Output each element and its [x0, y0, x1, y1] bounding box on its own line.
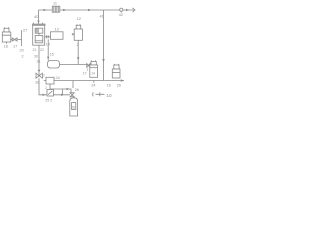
arrow down canister C branch	[77, 57, 80, 60]
pump P14	[48, 61, 60, 69]
vessel inner box upper	[35, 28, 43, 33]
canister B	[112, 64, 120, 78]
regulator R24	[46, 77, 54, 84]
arrow on top pipe 2	[63, 9, 66, 11]
canister A	[90, 60, 98, 77]
svg-text:2: 2	[22, 55, 24, 59]
svg-text:24: 24	[56, 76, 60, 80]
wire riser from vessel top	[38, 10, 40, 24]
valve V17	[12, 38, 17, 41]
svg-text:16: 16	[4, 45, 8, 49]
svg-text:20: 20	[20, 49, 24, 53]
svg-text:26: 26	[71, 106, 75, 110]
arrow on bottom line after corner	[43, 94, 46, 96]
arrow end right bottom	[121, 79, 124, 81]
valve V32	[36, 73, 42, 78]
arrow on mid line	[67, 88, 70, 90]
svg-text:42: 42	[119, 13, 123, 17]
svg-text:40: 40	[34, 14, 39, 19]
valve V42 circle	[120, 8, 123, 11]
wire left riser	[21, 30, 23, 46]
svg-text:22: 22	[40, 48, 44, 52]
figure pointer 10	[93, 92, 112, 98]
svg-text:11: 11	[53, 2, 57, 6]
svg-text:14: 14	[91, 72, 95, 76]
canister 16	[2, 27, 11, 44]
vessel inner connector	[38, 33, 40, 35]
wire mid line to cylinder valve	[50, 89, 71, 93]
svg-text:21: 21	[33, 48, 37, 52]
arrow down to pump	[47, 57, 49, 60]
heater H13	[51, 32, 64, 40]
svg-text:26: 26	[117, 83, 121, 87]
filter F11	[52, 6, 60, 12]
box 25 on bottom line	[47, 90, 54, 97]
wire right riser	[103, 13, 105, 81]
svg-text:13: 13	[55, 28, 59, 32]
valve at canister A inlet	[87, 64, 90, 68]
wire valve to riser	[11, 39, 22, 41]
arrow on top pipe 4	[126, 9, 129, 11]
vessel inner box lower	[35, 35, 43, 42]
svg-text:2: 2	[43, 74, 45, 78]
svg-text:31: 31	[37, 60, 41, 64]
svg-text:17: 17	[83, 72, 87, 76]
flange link to heater	[45, 35, 51, 38]
arrow on bottom line	[61, 94, 64, 96]
svg-text:15: 15	[50, 53, 54, 57]
svg-text:12: 12	[77, 17, 81, 21]
valve at cylinder top	[70, 93, 74, 97]
node tick below canister A	[93, 81, 95, 83]
node tick between lines	[62, 89, 64, 95]
svg-text:2: 2	[77, 43, 79, 47]
svg-text:41: 41	[100, 15, 104, 19]
wire right bottom line	[54, 80, 124, 82]
svg-text:27: 27	[23, 29, 27, 33]
arrow down right riser	[102, 59, 105, 62]
svg-text:24: 24	[91, 83, 95, 87]
arrow on top pipe 3	[88, 9, 91, 11]
arrow down riser to vessel	[37, 21, 39, 24]
wire regulator down	[49, 84, 51, 89]
svg-text:2b: 2b	[75, 88, 79, 92]
wire stub below line start	[72, 81, 74, 89]
svg-text:10: 10	[107, 93, 113, 98]
wire heater down to pump	[47, 39, 49, 60]
outlet chevron	[133, 8, 136, 12]
cylinder 26	[70, 98, 78, 116]
wire vessel down pipe	[38, 45, 40, 76]
arrow down on vessel pipe	[38, 70, 41, 73]
svg-text:2: 2	[45, 86, 47, 90]
vessel V12 flange	[32, 24, 46, 26]
wire valve down and corner	[39, 78, 70, 95]
svg-text:30: 30	[34, 55, 38, 59]
node junction 41	[103, 10, 105, 13]
arrow on top pipe 1	[44, 9, 47, 11]
canister C12	[72, 24, 83, 64]
wire top main pipe	[39, 9, 135, 11]
wire pump outlet	[60, 64, 88, 66]
vessel inner line	[35, 40, 43, 42]
vessel V12 outer	[33, 25, 45, 45]
svg-text:2: 2	[50, 99, 52, 103]
svg-text:1b: 1b	[107, 83, 111, 87]
svg-text:17: 17	[13, 45, 17, 49]
svg-text:1: 1	[86, 68, 88, 72]
svg-text:25: 25	[45, 99, 49, 103]
